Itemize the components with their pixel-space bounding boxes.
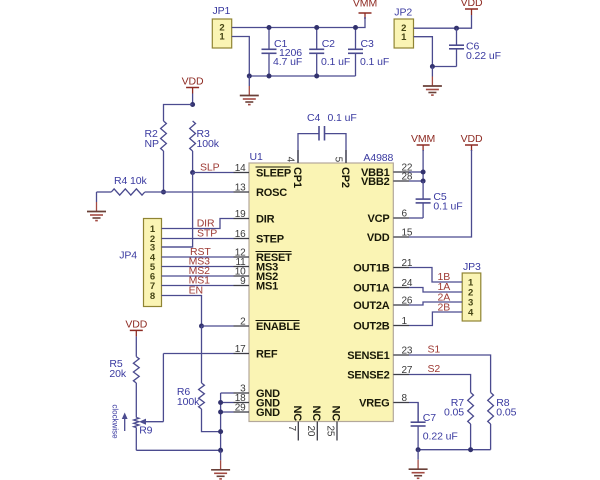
pin 12 RESET (234, 256, 250, 258)
pin 7 NC (297, 422, 299, 441)
svg-text:R9: R9 (139, 425, 152, 437)
pin 16 STEP (234, 238, 250, 240)
ground R4 (96, 192, 98, 202)
capacitor C1 (268, 28, 270, 50)
svg-text:0.05: 0.05 (496, 407, 516, 419)
svg-text:ROSC: ROSC (256, 187, 287, 199)
wire VBB1 (409, 171, 423, 173)
pin 4 CP1 (297, 150, 299, 163)
wire JP2 pin1 down (414, 37, 433, 67)
svg-text:100k: 100k (197, 138, 220, 150)
svg-text:R4 10k: R4 10k (114, 175, 148, 187)
wire OUT2B to JP3-4 (409, 312, 462, 326)
svg-text:9: 9 (240, 276, 246, 287)
svg-text:0.05: 0.05 (444, 407, 464, 419)
ground bottom left (220, 450, 222, 460)
svg-text:8: 8 (150, 291, 155, 302)
svg-text:0.22 uF: 0.22 uF (466, 50, 501, 62)
svg-text:OUT1A: OUT1A (353, 283, 390, 295)
svg-text:4: 4 (468, 307, 474, 318)
resistor R3 (190, 121, 196, 151)
svg-text:1: 1 (401, 32, 407, 43)
wire JP1 pin1 down to gnd rail (232, 37, 250, 77)
svg-text:5: 5 (333, 157, 344, 163)
wire JP4 pin8 EN down (162, 296, 202, 327)
capacitor C7 (417, 403, 419, 423)
capacitor C4 (298, 134, 319, 163)
wire bottom gnd rail (249, 75, 355, 77)
wire OUT2A to JP3-3 (409, 302, 462, 305)
ground JP2 (431, 67, 433, 77)
svg-text:29: 29 (235, 403, 246, 414)
wire R6 bottom to gnd node (202, 409, 221, 432)
pin 2 ENABLE (234, 325, 250, 327)
junction R7 rail (468, 447, 473, 452)
pin 21 OUT1B (393, 267, 409, 269)
wire R9 bottom down (135, 428, 137, 451)
potentiometer R9 (134, 418, 139, 428)
wire R4 to ROSC pin (145, 191, 234, 193)
svg-text:0.1 uF: 0.1 uF (360, 56, 389, 68)
svg-text:OUT2B: OUT2B (353, 321, 390, 333)
wire GND pin18 (221, 402, 234, 404)
wire GND pin29 (221, 411, 234, 413)
svg-text:U1: U1 (250, 151, 263, 163)
capacitor C5 (422, 181, 424, 199)
svg-text:CP2: CP2 (339, 167, 351, 188)
connector JP4 (144, 219, 162, 307)
pin 9 MS1 (234, 285, 250, 287)
svg-text:VDD: VDD (461, 0, 483, 9)
wire SENSE2 S2 to R7 (409, 375, 471, 393)
junction GND 18 (218, 400, 223, 405)
svg-text:VREG: VREG (359, 398, 389, 410)
svg-text:7: 7 (286, 426, 297, 432)
wire R8 to rail (490, 424, 492, 450)
svg-text:VBB2: VBB2 (361, 176, 390, 188)
wire R2 bottom (163, 151, 165, 192)
pin 15 VDD (393, 236, 409, 238)
svg-text:8: 8 (402, 393, 408, 404)
svg-text:EN: EN (189, 285, 203, 297)
svg-text:C7: C7 (423, 412, 436, 424)
wire R3 bottom to SLP (192, 151, 194, 173)
junction C7 rail (416, 447, 421, 452)
wire OUT1A to JP3-2 (409, 288, 462, 293)
pin 24 OUT1A (393, 287, 409, 289)
pin 18 GND (234, 402, 250, 404)
svg-text:0.1 uF: 0.1 uF (328, 112, 357, 124)
svg-text:NC: NC (310, 406, 322, 422)
pin 29 GND (234, 411, 250, 413)
junction VBB1 (421, 170, 426, 175)
wire bottom right rail (418, 449, 491, 451)
svg-text:GND: GND (256, 407, 280, 419)
svg-text:1: 1 (219, 32, 225, 43)
junction C1 bottom (267, 74, 272, 79)
junction JP2 gnd (430, 64, 435, 69)
wire VREG to C7 (409, 403, 418, 423)
connector JP3 (462, 273, 481, 321)
svg-text:16: 16 (235, 229, 246, 240)
junction GND 29 (218, 410, 223, 415)
svg-text:S2: S2 (428, 363, 441, 375)
svg-text:S1: S1 (428, 344, 441, 356)
junction VDD node (190, 102, 195, 107)
svg-text:100k: 100k (177, 396, 200, 408)
pin 28 VBB2 (393, 180, 409, 182)
svg-text:C2: C2 (322, 38, 335, 50)
wire GND collect vertical (220, 393, 222, 450)
wire JP4 pin2 to STEP (162, 238, 234, 240)
svg-text:SLP: SLP (200, 162, 220, 174)
svg-text:A4988: A4988 (363, 152, 393, 164)
junction R2/R4/ROSC (161, 190, 166, 195)
resistor R8 (488, 393, 494, 425)
capacitor C3 (355, 28, 357, 50)
ground JP1 (248, 76, 250, 86)
svg-text:SLEEP: SLEEP (256, 168, 291, 180)
wire JP4 pin1 to DIR (162, 219, 234, 229)
svg-text:6: 6 (402, 209, 408, 220)
resistor R4 (111, 189, 145, 195)
svg-text:JP4: JP4 (119, 250, 137, 262)
wire bottom-left gnd rail (136, 449, 220, 451)
wire EN down to R6 (201, 326, 203, 383)
svg-text:4.7 uF: 4.7 uF (273, 56, 302, 68)
svg-text:STP: STP (197, 228, 217, 240)
wire wiper up to REF (162, 354, 164, 422)
svg-text:REF: REF (256, 349, 278, 361)
wire SLP to SLEEP pin (193, 172, 234, 174)
clockwise arrow (124, 416, 126, 431)
junction C2 top (314, 25, 319, 30)
wire C6 bottom to gnd (432, 66, 456, 68)
pin 26 OUT2A (393, 304, 409, 306)
wire JP4 pin4 to RESET (162, 256, 234, 258)
svg-text:0.1 uF: 0.1 uF (321, 56, 350, 68)
junction R6 gnd (218, 429, 223, 434)
pin 20 NC (316, 422, 318, 441)
svg-text:VDD: VDD (461, 133, 483, 145)
svg-text:4: 4 (285, 157, 296, 163)
op-amp U1 A4988 body (249, 163, 393, 422)
pin 27 SENSE2 (393, 374, 409, 376)
svg-text:NC: NC (291, 406, 303, 422)
pin 25 NC (336, 422, 338, 441)
connector JP2 (394, 19, 413, 48)
svg-text:13: 13 (235, 183, 246, 194)
resistor R5 (133, 357, 139, 383)
svg-text:SENSE1: SENSE1 (347, 350, 389, 362)
pin 6 VCP (393, 217, 409, 219)
svg-text:2B: 2B (438, 302, 451, 314)
wire R5 to R9 (135, 383, 137, 418)
wire OUT1B to JP3-1 (409, 268, 462, 283)
pin 23 SENSE1 (393, 354, 409, 356)
svg-text:NC: NC (330, 406, 342, 422)
svg-text:1: 1 (402, 316, 408, 327)
ground bottom right (417, 450, 419, 460)
junction C3 top (353, 25, 358, 30)
svg-text:JP3: JP3 (463, 261, 481, 273)
wire JP4 pin5 to MS3 (162, 266, 234, 268)
svg-text:20: 20 (305, 426, 316, 437)
pin 3 GND (234, 392, 250, 394)
junction C2 bottom (314, 74, 319, 79)
svg-text:DIR: DIR (256, 214, 275, 226)
resistor R6 (199, 383, 205, 409)
pin 22 VBB1 (393, 171, 409, 173)
wire REF to pin 17 (163, 353, 233, 355)
junction SLP (190, 170, 195, 175)
wire rail to VMM symbol (356, 17, 366, 28)
pin 19 DIR (234, 218, 250, 220)
wire JP4 pin6 to MS2 (162, 275, 234, 277)
wire SENSE1 S1 to R8 (409, 355, 491, 393)
svg-text:20k: 20k (109, 368, 126, 380)
wiper arrow R9 (143, 421, 164, 423)
svg-text:2: 2 (240, 317, 246, 328)
pin 11 MS3 (234, 266, 250, 268)
svg-text:OUT2A: OUT2A (353, 300, 390, 312)
wire JP1 pin2 to VMM rail (232, 27, 356, 29)
wire JP2 pin2 to VDD (414, 15, 472, 28)
resistor R2 (161, 121, 167, 151)
pin 10 MS2 (234, 275, 250, 277)
wire gnd to R4 (97, 191, 112, 193)
svg-text:JP2: JP2 (394, 7, 412, 19)
svg-text:VMM: VMM (411, 133, 435, 145)
wire R7 to rail (470, 424, 472, 450)
wire VDD to pin 15 (409, 150, 472, 237)
capacitor C6 (456, 28, 458, 45)
svg-text:clockwise: clockwise (111, 404, 120, 439)
svg-text:JP1: JP1 (213, 5, 231, 17)
pin 8 VREG (393, 402, 409, 404)
junction gnd rail left (247, 74, 252, 79)
wire VDD to R2 (164, 105, 193, 122)
pin 13 ROSC (234, 191, 250, 193)
junction C6 top (454, 26, 459, 31)
wire GND pin3 (221, 392, 234, 394)
svg-text:ENABLE: ENABLE (256, 321, 300, 333)
svg-text:STEP: STEP (256, 234, 284, 246)
svg-text:0.1 uF: 0.1 uF (433, 201, 462, 213)
svg-text:VDD: VDD (182, 76, 204, 88)
pin 14 SLEEP (234, 172, 250, 174)
junction EN/ENABLE (199, 324, 204, 329)
pin 1 OUT2B (393, 325, 409, 327)
svg-text:17: 17 (235, 344, 246, 355)
svg-text:25: 25 (325, 426, 336, 437)
svg-text:MS1: MS1 (256, 281, 278, 293)
svg-text:CP1: CP1 (291, 167, 303, 188)
wire C5 to VCP (409, 217, 423, 219)
svg-text:19: 19 (235, 209, 246, 220)
connector JP1 (212, 19, 231, 48)
wire EN to ENABLE pin (202, 325, 234, 327)
svg-text:VDD: VDD (367, 232, 390, 244)
wire VBB2 (409, 180, 423, 182)
svg-text:C3: C3 (361, 38, 374, 50)
svg-text:C4: C4 (307, 112, 320, 124)
junction VBB2 (421, 179, 426, 184)
junction bottom rail (218, 448, 223, 453)
wire VMM down VBB (422, 150, 424, 181)
resistor R7 (468, 393, 474, 425)
wire JP4 pin7 to MS1 (162, 285, 234, 287)
svg-text:OUT1B: OUT1B (353, 263, 390, 275)
pin 17 REF (234, 353, 250, 355)
pin 5 CP2 (345, 150, 347, 163)
svg-text:VMM: VMM (353, 0, 377, 10)
svg-text:VCP: VCP (367, 213, 389, 225)
capacitor C2 (316, 28, 318, 50)
junction C1 top (267, 25, 272, 30)
wire SLP down to JP4 pin3 (162, 173, 193, 248)
svg-text:NP: NP (145, 138, 159, 150)
svg-text:14: 14 (235, 163, 246, 174)
svg-text:SENSE2: SENSE2 (347, 370, 389, 382)
svg-text:0.22 uF: 0.22 uF (423, 431, 458, 443)
wire JP4 pin3 to SLP vertical (162, 246, 193, 248)
svg-text:VDD: VDD (125, 318, 147, 330)
